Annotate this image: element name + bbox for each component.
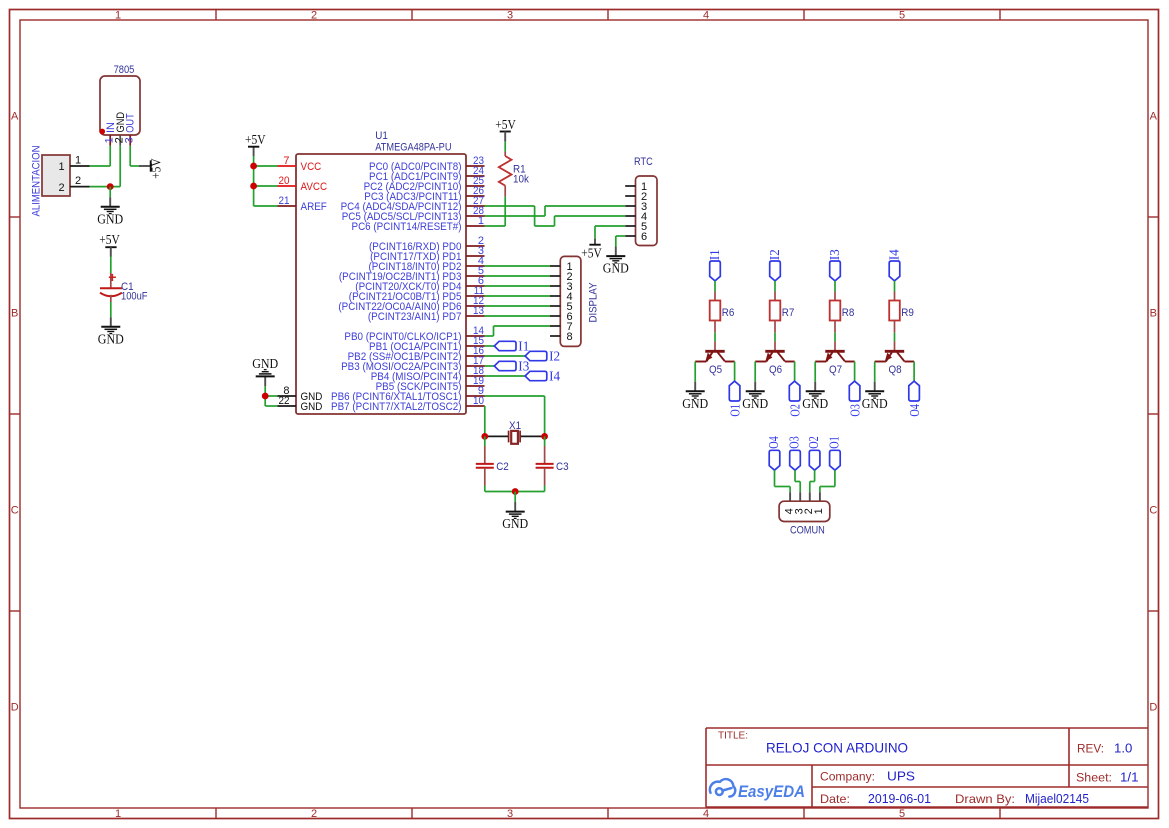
svg-text:O4: O4 — [907, 404, 922, 417]
svg-text:Mijael02145: Mijael02145 — [1025, 791, 1089, 806]
svg-text:Q5: Q5 — [709, 364, 722, 376]
svg-text:GND: GND — [742, 396, 768, 411]
svg-text:R9: R9 — [901, 307, 914, 319]
svg-text:Q7: Q7 — [829, 364, 842, 376]
svg-text:A: A — [11, 111, 19, 123]
svg-text:GND: GND — [98, 331, 124, 346]
svg-text:GND: GND — [862, 396, 888, 411]
svg-text:AREF: AREF — [301, 201, 328, 213]
svg-text:VCC: VCC — [301, 161, 322, 173]
svg-text:C2: C2 — [496, 461, 509, 473]
svg-text:+5V: +5V — [581, 245, 602, 260]
svg-text:O1: O1 — [728, 404, 743, 417]
svg-text:R8: R8 — [842, 307, 855, 319]
svg-text:4: 4 — [703, 808, 709, 820]
svg-text:I1: I1 — [518, 338, 529, 353]
svg-text:REV:: REV: — [1077, 742, 1104, 756]
svg-text:COMUN: COMUN — [790, 525, 825, 537]
svg-text:OUT: OUT — [124, 113, 136, 133]
svg-text:5: 5 — [899, 10, 905, 22]
svg-text:D: D — [11, 702, 19, 714]
svg-text:Q8: Q8 — [888, 364, 901, 376]
svg-text:O4: O4 — [766, 436, 781, 449]
svg-text:3: 3 — [124, 137, 136, 143]
svg-text:B: B — [11, 308, 18, 320]
svg-text:22: 22 — [279, 395, 290, 407]
svg-text:I2: I2 — [767, 249, 782, 260]
svg-text:RELOJ CON ARDUINO: RELOJ CON ARDUINO — [766, 740, 908, 756]
svg-text:2: 2 — [311, 10, 317, 22]
svg-text:B: B — [1150, 308, 1157, 320]
svg-text:2: 2 — [311, 808, 317, 820]
svg-text:2019-06-01: 2019-06-01 — [868, 791, 931, 806]
svg-text:U1: U1 — [375, 130, 388, 142]
svg-text:I3: I3 — [518, 358, 529, 373]
svg-text:1: 1 — [75, 155, 81, 167]
svg-text:7805: 7805 — [114, 64, 135, 76]
svg-text:EasyEDA: EasyEDA — [738, 783, 805, 801]
svg-text:1/1: 1/1 — [1120, 770, 1139, 785]
svg-text:4: 4 — [703, 10, 709, 22]
svg-text:1.0: 1.0 — [1114, 741, 1132, 756]
svg-text:RTC: RTC — [634, 156, 653, 168]
svg-text:1: 1 — [59, 161, 65, 173]
svg-text:13: 13 — [473, 305, 484, 317]
svg-text:Company:: Company: — [820, 770, 875, 784]
svg-text:1: 1 — [115, 808, 121, 820]
svg-text:GND: GND — [252, 356, 278, 371]
svg-text:2: 2 — [59, 182, 65, 194]
svg-text:100uF: 100uF — [121, 291, 148, 303]
svg-text:O2: O2 — [806, 436, 821, 449]
svg-text:C: C — [11, 505, 19, 517]
svg-text:Sheet:: Sheet: — [1076, 771, 1112, 785]
svg-text:AVCC: AVCC — [301, 181, 328, 193]
svg-text:1: 1 — [115, 10, 121, 22]
svg-text:GND: GND — [603, 261, 629, 276]
svg-text:C: C — [1149, 505, 1157, 517]
svg-text:+5V: +5V — [495, 117, 516, 132]
svg-text:5: 5 — [899, 808, 905, 820]
svg-text:10: 10 — [473, 395, 484, 407]
svg-text:R7: R7 — [782, 307, 795, 319]
svg-text:I1: I1 — [707, 249, 722, 260]
svg-text:GND: GND — [502, 516, 528, 531]
svg-text:+5V: +5V — [99, 232, 120, 247]
svg-text:Q6: Q6 — [769, 364, 782, 376]
svg-text:TITLE:: TITLE: — [718, 730, 748, 742]
svg-text:3: 3 — [507, 10, 513, 22]
svg-text:X1: X1 — [509, 420, 521, 432]
svg-text:8: 8 — [567, 331, 573, 343]
svg-text:O1: O1 — [826, 436, 841, 449]
svg-text:GND: GND — [97, 211, 123, 226]
svg-text:O3: O3 — [787, 436, 802, 449]
svg-text:O2: O2 — [788, 404, 803, 417]
svg-text:I3: I3 — [827, 249, 842, 260]
svg-text:ALIMENTACION: ALIMENTACION — [30, 145, 42, 216]
svg-text:21: 21 — [279, 195, 290, 207]
svg-text:+5V: +5V — [149, 158, 164, 179]
svg-text:GND: GND — [301, 401, 323, 413]
svg-text:C3: C3 — [556, 461, 569, 473]
svg-text:Drawn By:: Drawn By: — [955, 792, 1015, 806]
svg-text:Date:: Date: — [820, 792, 850, 806]
svg-text:I2: I2 — [549, 348, 560, 363]
svg-text:2: 2 — [75, 175, 81, 187]
svg-text:GND: GND — [802, 396, 828, 411]
svg-text:O3: O3 — [848, 404, 863, 417]
svg-text:UPS: UPS — [887, 769, 915, 784]
svg-text:7: 7 — [283, 155, 289, 167]
svg-text:+: + — [108, 269, 116, 285]
svg-text:PC6 (PCINT14/RESET#): PC6 (PCINT14/RESET#) — [352, 221, 462, 233]
svg-text:A: A — [1150, 111, 1158, 123]
svg-text:3: 3 — [507, 808, 513, 820]
svg-text:I4: I4 — [887, 249, 902, 260]
svg-text:ATMEGA48PA-PU: ATMEGA48PA-PU — [375, 142, 451, 154]
svg-text:DISPLAY: DISPLAY — [587, 282, 599, 323]
svg-text:PB7 (PCINT7/XTAL2/TOSC2): PB7 (PCINT7/XTAL2/TOSC2) — [331, 401, 462, 413]
svg-text:GND: GND — [682, 396, 708, 411]
svg-text:6: 6 — [641, 231, 647, 243]
svg-text:I4: I4 — [549, 368, 560, 383]
svg-text:D: D — [1149, 702, 1157, 714]
svg-text:10k: 10k — [513, 173, 529, 185]
svg-text:1: 1 — [478, 215, 484, 227]
svg-text:R6: R6 — [722, 307, 735, 319]
svg-text:+5V: +5V — [245, 132, 266, 147]
svg-text:1: 1 — [813, 508, 825, 514]
svg-text:(PCINT23/AIN1) PD7: (PCINT23/AIN1) PD7 — [368, 311, 462, 323]
svg-text:20: 20 — [279, 175, 290, 187]
